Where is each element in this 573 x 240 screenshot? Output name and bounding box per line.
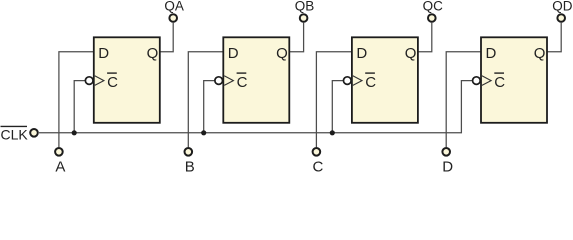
wire: CLK bus (horizontal, with final turn up to U4 clock) — [39, 81, 477, 133]
svg-text:QA: QA — [164, 0, 184, 14]
junction dot: CLK bus to U3 clock branch — [330, 130, 335, 135]
svg-text:C: C — [494, 74, 505, 91]
svg-text:A: A — [55, 159, 65, 173]
svg-text:QB: QB — [295, 0, 315, 14]
D flip-flop U3 (body) — [352, 37, 418, 123]
svg-text:Q: Q — [276, 45, 288, 62]
svg-text:C: C — [365, 74, 376, 91]
clock inversion bubble (U3) — [344, 77, 352, 85]
svg-text:QD: QD — [552, 0, 573, 14]
svg-text:C: C — [237, 74, 248, 91]
D flip-flop U2 (body) — [223, 37, 289, 123]
wire: node D up and over to D input of U4 — [446, 52, 481, 147]
svg-text:Q: Q — [405, 45, 417, 62]
pin label C-bar (U3) — [365, 73, 376, 91]
wire: node A up and over to D input of U1 — [59, 52, 94, 147]
node C terminal — [313, 148, 321, 156]
D flip-flop U4 (body) — [481, 37, 547, 123]
wire: node B up and over to D input of U2 — [188, 52, 223, 147]
node QD terminal — [557, 14, 565, 22]
svg-text:D: D — [442, 159, 453, 173]
svg-text:C: C — [312, 159, 323, 173]
clock inversion bubble (U2) — [215, 77, 223, 85]
svg-text:C: C — [107, 74, 118, 91]
node QC terminal — [428, 14, 436, 22]
node D terminal — [442, 148, 450, 156]
clock edge-trigger symbol (U2) — [224, 76, 233, 86]
pin label C-bar (U4) — [494, 73, 505, 91]
pin label C-bar (U1) — [107, 73, 118, 91]
clock inversion bubble (U1) — [85, 77, 93, 85]
svg-text:D: D — [98, 45, 109, 62]
clock inversion bubble (U4) — [473, 77, 481, 85]
junction dot: CLK bus to U2 clock branch — [201, 130, 206, 135]
wire: Q output of U1 to node QA — [160, 23, 173, 52]
svg-text:D: D — [228, 45, 239, 62]
node A terminal — [55, 148, 63, 156]
wire: CLK bus branch up to clock bubble of U3 — [332, 81, 348, 133]
node QA terminal — [169, 14, 177, 22]
svg-text:CLK: CLK — [1, 126, 29, 142]
svg-text:QC: QC — [423, 0, 444, 14]
svg-text:D: D — [356, 45, 367, 62]
pin label C-bar (U2) — [237, 73, 248, 91]
D flip-flop U1 (body) — [94, 37, 160, 123]
wire: node C up and over to D input of U3 — [316, 52, 352, 147]
svg-text:B: B — [185, 159, 195, 173]
node B terminal — [185, 148, 193, 156]
node QB terminal — [300, 14, 308, 22]
svg-text:Q: Q — [147, 45, 159, 62]
wire: CLK bus branch up to clock bubble of U2 — [204, 81, 220, 133]
wire: Q output of U2 to node QB — [289, 23, 303, 52]
clock edge-trigger symbol (U1) — [95, 76, 104, 86]
junction dot: CLK bus to U1 clock branch — [72, 130, 77, 135]
node CLK terminal — [30, 129, 38, 137]
clock edge-trigger symbol (U3) — [353, 76, 362, 86]
wire: Q output of U4 to node QD — [547, 23, 561, 52]
label CLK (with overline) — [1, 126, 29, 142]
wire: Q output of U3 to node QC — [418, 23, 432, 52]
svg-text:D: D — [486, 45, 497, 62]
clock edge-trigger symbol (U4) — [482, 76, 491, 86]
svg-text:Q: Q — [534, 45, 546, 62]
wire: CLK bus branch up to clock bubble of U1 — [74, 81, 90, 133]
